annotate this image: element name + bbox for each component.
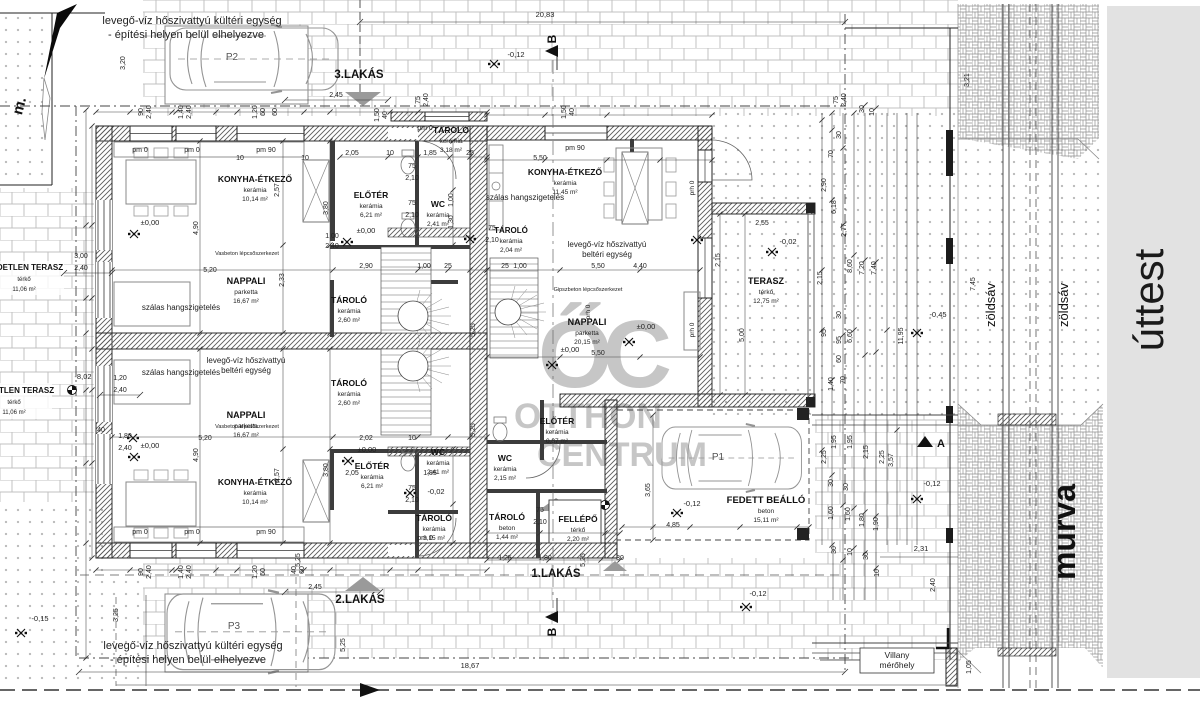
svg-text:±0,00: ±0,00 (561, 345, 580, 354)
svg-text:30: 30 (836, 131, 843, 139)
svg-text:kerámia: kerámia (337, 391, 361, 398)
svg-text:kerámia: kerámia (359, 203, 383, 210)
svg-text:10,14 m²: 10,14 m² (242, 196, 268, 203)
svg-text:4,90: 4,90 (193, 448, 200, 462)
svg-text:prh 0: prh 0 (689, 180, 696, 195)
svg-text:10: 10 (301, 155, 309, 162)
svg-text:Gipszbeton lépcsőszerkezet: Gipszbeton lépcsőszerkezet (554, 287, 623, 293)
svg-text:úttest: úttest (1125, 248, 1172, 351)
svg-text:10: 10 (236, 155, 244, 162)
svg-text:±0,00: ±0,00 (141, 441, 160, 450)
svg-text:pm 0: pm 0 (417, 535, 433, 542)
svg-text:3,80: 3,80 (323, 463, 330, 477)
svg-text:75: 75 (415, 96, 422, 104)
svg-text:11,95: 11,95 (898, 327, 905, 344)
svg-text:75: 75 (536, 507, 544, 514)
svg-text:±0,00: ±0,00 (357, 226, 376, 235)
svg-text:WC: WC (498, 453, 512, 463)
svg-text:2,15: 2,15 (863, 445, 870, 459)
svg-text:TÁROLÓ: TÁROLÓ (489, 511, 525, 522)
svg-text:2,40: 2,40 (186, 565, 193, 579)
svg-text:40: 40 (97, 427, 105, 434)
svg-text:2,45: 2,45 (308, 584, 322, 591)
svg-text:75: 75 (408, 485, 416, 492)
svg-text:75: 75 (408, 200, 416, 207)
svg-text:Villany: Villany (885, 650, 911, 660)
svg-text:levegő-víz hőszivattyú kültéri: levegő-víz hőszivattyú kültéri egység (102, 15, 281, 27)
svg-text:5,25: 5,25 (295, 553, 302, 567)
svg-text:pm 90: pm 90 (256, 529, 276, 536)
svg-text:3,21: 3,21 (964, 73, 971, 87)
svg-text:kerámia: kerámia (243, 187, 267, 194)
svg-text:kerámia: kerámia (499, 238, 523, 245)
svg-text:parketta: parketta (575, 330, 599, 337)
svg-text:40: 40 (569, 108, 576, 116)
svg-text:Vasbeton lépcsőszerkezet: Vasbeton lépcsőszerkezet (215, 251, 279, 257)
svg-text:1,80: 1,80 (859, 513, 866, 527)
svg-text:2,40: 2,40 (113, 387, 127, 394)
svg-text:B: B (545, 627, 559, 636)
svg-text:95: 95 (821, 329, 828, 337)
svg-text:0,87 m²: 0,87 m² (546, 438, 569, 445)
svg-text:30: 30 (843, 483, 850, 491)
svg-text:5,50: 5,50 (533, 155, 547, 162)
svg-text:18,67: 18,67 (461, 661, 480, 670)
svg-text:1,00: 1,00 (325, 233, 339, 240)
svg-text:10: 10 (408, 435, 416, 442)
svg-text:prh 0: prh 0 (689, 322, 696, 337)
svg-text:B: B (545, 34, 559, 43)
svg-text:kerámia: kerámia (493, 466, 517, 473)
svg-text:kerámia: kerámia (360, 474, 384, 481)
svg-text:A: A (937, 438, 945, 450)
svg-text:2,57: 2,57 (274, 183, 281, 197)
svg-text:8,60: 8,60 (847, 259, 854, 273)
svg-text:szálas hangszigetelés: szálas hangszigetelés (142, 303, 220, 312)
svg-text:mérőhely: mérőhely (880, 660, 916, 670)
svg-text:NAPPALI: NAPPALI (227, 276, 266, 286)
svg-text:KONYHA-ÉTKEZŐ: KONYHA-ÉTKEZŐ (528, 166, 603, 177)
svg-text:2,10: 2,10 (485, 237, 499, 244)
svg-text:DETLEN TERASZ: DETLEN TERASZ (0, 386, 54, 395)
svg-text:2,40: 2,40 (146, 565, 153, 579)
svg-text:±0,00: ±0,00 (358, 445, 377, 454)
svg-text:pm 0: pm 0 (184, 529, 200, 536)
svg-text:2,40: 2,40 (841, 93, 848, 107)
svg-text:1,80: 1,80 (538, 555, 552, 562)
svg-text:kerámia: kerámia (243, 490, 267, 497)
svg-text:1,40: 1,40 (178, 565, 185, 579)
svg-text:3,57: 3,57 (888, 453, 895, 467)
svg-text:térkő: térkő (17, 277, 31, 283)
svg-text:-0,12: -0,12 (683, 499, 700, 508)
svg-text:- építési helyen belül elhelye: - építési helyen belül elhelyezve (110, 654, 266, 666)
svg-text:2,41 m²: 2,41 m² (427, 221, 450, 228)
svg-text:2,10: 2,10 (533, 519, 547, 526)
svg-text:2,31: 2,31 (914, 544, 929, 553)
svg-text:ELŐTÉR: ELŐTÉR (540, 415, 574, 426)
svg-text:pm 0: pm 0 (417, 125, 433, 132)
svg-text:2,10: 2,10 (405, 175, 419, 182)
svg-text:70: 70 (828, 150, 835, 158)
svg-text:2,04 m²: 2,04 m² (500, 247, 523, 254)
svg-text:beltéri egység: beltéri egység (582, 250, 632, 259)
svg-text:2,77: 2,77 (841, 223, 848, 237)
svg-text:1,20: 1,20 (252, 565, 259, 579)
svg-text:2,15: 2,15 (817, 271, 824, 285)
svg-text:2,05: 2,05 (345, 150, 359, 157)
svg-text:7,45: 7,45 (970, 277, 977, 291)
svg-text:pm 90: pm 90 (256, 147, 276, 154)
svg-text:2,05: 2,05 (345, 470, 359, 477)
svg-text:2,25: 2,25 (879, 450, 886, 464)
svg-text:3,18 m²: 3,18 m² (440, 147, 463, 154)
svg-text:2,10: 2,10 (405, 212, 419, 219)
svg-text:3,80: 3,80 (323, 201, 330, 215)
svg-text:1,00: 1,00 (513, 263, 527, 270)
svg-text:P1: P1 (712, 452, 725, 463)
svg-text:2,40: 2,40 (118, 445, 132, 452)
svg-text:1,60: 1,60 (828, 506, 835, 520)
svg-text:pm 0: pm 0 (132, 147, 148, 154)
svg-text:-0,12: -0,12 (507, 50, 524, 59)
svg-text:70: 70 (840, 376, 847, 384)
svg-text:2,33: 2,33 (279, 273, 286, 287)
svg-text:2,10: 2,10 (405, 497, 419, 504)
svg-text:szálas hangszigetelés: szálas hangszigetelés (142, 368, 220, 377)
svg-text:2,45: 2,45 (329, 92, 343, 99)
svg-text:16,67 m²: 16,67 m² (233, 298, 259, 305)
svg-text:P2: P2 (226, 52, 239, 63)
svg-text:pm 90: pm 90 (565, 145, 585, 152)
svg-text:25: 25 (444, 263, 452, 270)
svg-text:6,21 m²: 6,21 m² (361, 483, 384, 490)
svg-text:60: 60 (836, 355, 843, 363)
svg-text:beton: beton (499, 525, 516, 532)
svg-text:20,83: 20,83 (536, 10, 555, 19)
svg-text:25: 25 (501, 263, 509, 270)
svg-text:40: 40 (291, 566, 298, 574)
svg-text:1,05: 1,05 (966, 660, 973, 674)
svg-text:térkő: térkő (7, 400, 21, 406)
svg-text:10: 10 (874, 569, 881, 577)
svg-text:5,25: 5,25 (470, 323, 477, 337)
svg-text:1,85: 1,85 (423, 150, 437, 157)
svg-text:2,55: 2,55 (755, 220, 769, 227)
svg-text:4,40: 4,40 (633, 263, 647, 270)
svg-text:1,40: 1,40 (828, 377, 835, 391)
svg-text:kerámia: kerámia (545, 429, 569, 436)
svg-text:±0,00: ±0,00 (637, 322, 656, 331)
svg-text:TÁROLÓ: TÁROLÓ (494, 226, 528, 235)
svg-text:1,25: 1,25 (498, 555, 512, 562)
svg-text:-0,12: -0,12 (923, 479, 940, 488)
svg-text:12,75 m²: 12,75 m² (753, 298, 779, 305)
svg-text:kerámia: kerámia (422, 526, 446, 533)
svg-text:KONYHA-ÉTKEZŐ: KONYHA-ÉTKEZŐ (218, 476, 293, 487)
svg-text:10,14 m²: 10,14 m² (242, 499, 268, 506)
svg-text:7,40: 7,40 (871, 261, 878, 275)
svg-text:30: 30 (863, 552, 870, 560)
svg-text:2,25: 2,25 (821, 450, 828, 464)
svg-text:NAPPALI: NAPPALI (227, 410, 266, 420)
svg-text:90: 90 (138, 568, 145, 576)
svg-text:1,80: 1,80 (118, 433, 132, 440)
svg-text:3,20: 3,20 (120, 56, 127, 70)
svg-text:FELLÉPŐ: FELLÉPŐ (558, 513, 598, 524)
svg-text:75: 75 (408, 163, 416, 170)
svg-text:zöldsáv: zöldsáv (983, 282, 998, 327)
svg-text:WC: WC (431, 199, 445, 209)
svg-text:4,90: 4,90 (193, 221, 200, 235)
svg-text:10: 10 (847, 548, 854, 556)
svg-text:1,20: 1,20 (113, 375, 127, 382)
svg-text:TÁROLÓ: TÁROLÓ (416, 512, 452, 523)
svg-text:1,60: 1,60 (845, 507, 852, 521)
svg-text:WC: WC (431, 447, 445, 457)
svg-text:levegő-víz hőszivattyú: levegő-víz hőszivattyú (207, 356, 286, 365)
svg-text:KONYHA-ÉTKEZŐ: KONYHA-ÉTKEZŐ (218, 173, 293, 184)
svg-text:2,90: 2,90 (821, 178, 828, 192)
svg-text:parketta: parketta (234, 289, 258, 296)
svg-text:2,40: 2,40 (325, 243, 339, 250)
svg-text:1,50: 1,50 (374, 108, 381, 122)
svg-text:- építési helyen belül elhelye: - építési helyen belül elhelyezve (108, 29, 264, 41)
svg-text:6,21 m²: 6,21 m² (360, 212, 383, 219)
svg-text:2,60 m²: 2,60 m² (338, 400, 361, 407)
svg-text:15,11 m²: 15,11 m² (753, 517, 779, 524)
svg-text:ELŐTÉR: ELŐTÉR (354, 189, 388, 200)
svg-text:-0,02: -0,02 (427, 487, 444, 496)
svg-text:3.LAKÁS: 3.LAKÁS (334, 68, 384, 81)
svg-text:-0,12: -0,12 (749, 589, 766, 598)
svg-text:2,15 m²: 2,15 m² (494, 475, 517, 482)
svg-text:95: 95 (836, 336, 843, 344)
svg-text:pm 0: pm 0 (184, 147, 200, 154)
svg-text:5,25: 5,25 (470, 423, 477, 437)
svg-text:2,40: 2,40 (423, 93, 430, 107)
svg-text:1,50: 1,50 (561, 105, 568, 119)
svg-text:16,67 m²: 16,67 m² (233, 432, 259, 439)
svg-text:11,06 m²: 11,06 m² (2, 410, 25, 416)
svg-text:5,50: 5,50 (591, 263, 605, 270)
svg-text:2,40: 2,40 (930, 578, 937, 592)
svg-text:-0,15: -0,15 (31, 614, 48, 623)
svg-text:60: 60 (299, 566, 306, 574)
svg-text:75: 75 (488, 225, 496, 232)
svg-text:1,95: 1,95 (847, 435, 854, 449)
svg-text:60: 60 (260, 568, 267, 576)
svg-text:10: 10 (386, 150, 394, 157)
svg-text:10: 10 (869, 108, 876, 116)
svg-text:térkő: térkő (759, 289, 774, 296)
svg-text:Vasbeton lépcsőszerkezet: Vasbeton lépcsőszerkezet (215, 424, 279, 430)
svg-text:TÁROLÓ: TÁROLÓ (433, 124, 469, 135)
svg-text:beltéri egység: beltéri egység (221, 366, 271, 375)
svg-text:11,06 m²: 11,06 m² (12, 287, 35, 293)
svg-text:levegő-víz hőszivattyú kültéri: levegő-víz hőszivattyú kültéri egység (103, 640, 282, 652)
svg-text:1,85: 1,85 (423, 470, 437, 477)
svg-text:1,95: 1,95 (831, 435, 838, 449)
svg-text:5,20: 5,20 (203, 267, 217, 274)
svg-text:30: 30 (828, 479, 835, 487)
svg-text:4,85: 4,85 (666, 522, 680, 529)
svg-text:zöldsáv: zöldsáv (1056, 282, 1071, 327)
svg-text:30: 30 (616, 555, 624, 562)
svg-text:DETLEN TERASZ: DETLEN TERASZ (0, 263, 63, 272)
svg-text:-0,45: -0,45 (929, 310, 946, 319)
svg-text:TERASZ: TERASZ (748, 276, 785, 286)
svg-text:2,20 m²: 2,20 m² (567, 536, 590, 543)
svg-text:murva: murva (1046, 484, 1082, 580)
svg-text:kerámia: kerámia (553, 180, 577, 187)
svg-text:75: 75 (833, 96, 840, 104)
svg-text:pm 0: pm 0 (132, 529, 148, 536)
svg-text:±0,00: ±0,00 (141, 218, 160, 227)
svg-text:kerámia: kerámia (337, 308, 361, 315)
svg-text:levegő-víz hőszivattyú: levegő-víz hőszivattyú (568, 240, 647, 249)
svg-text:kerámia: kerámia (426, 212, 450, 219)
svg-text:kerámia: kerámia (426, 460, 450, 467)
svg-text:2,57: 2,57 (274, 468, 281, 482)
svg-text:5,25: 5,25 (340, 638, 347, 652)
svg-text:P3: P3 (228, 621, 241, 632)
svg-text:1,90: 1,90 (873, 517, 880, 531)
svg-text:3,25: 3,25 (113, 608, 120, 622)
svg-text:7,20: 7,20 (859, 261, 866, 275)
svg-text:2,02: 2,02 (359, 435, 373, 442)
svg-text:szálas hangszigetelés: szálas hangszigetelés (486, 193, 564, 202)
svg-text:30: 30 (836, 311, 843, 319)
svg-text:-8,02: -8,02 (74, 372, 91, 381)
svg-text:30: 30 (831, 546, 838, 554)
svg-text:TÁROLÓ: TÁROLÓ (331, 377, 367, 388)
svg-text:2,15: 2,15 (715, 253, 722, 267)
svg-text:1,00: 1,00 (448, 193, 455, 207)
svg-text:3,65: 3,65 (645, 483, 652, 497)
svg-text:2,90: 2,90 (359, 263, 373, 270)
svg-text:1.LAKÁS: 1.LAKÁS (531, 567, 581, 580)
svg-text:6,18: 6,18 (831, 200, 838, 214)
svg-text:beton: beton (758, 508, 775, 515)
svg-text:ELŐTÉR: ELŐTÉR (355, 460, 389, 471)
svg-text:2,60 m²: 2,60 m² (338, 317, 361, 324)
svg-text:6,60: 6,60 (847, 329, 854, 343)
svg-text:30: 30 (859, 105, 866, 113)
svg-text:1,30: 1,30 (448, 215, 455, 229)
svg-text:TÁROLÓ: TÁROLÓ (331, 294, 367, 305)
svg-text:5,50: 5,50 (591, 350, 605, 357)
svg-text:1,44 m²: 1,44 m² (496, 534, 519, 541)
svg-text:FEDETT BEÁLLÓ: FEDETT BEÁLLÓ (727, 494, 806, 506)
svg-text:25: 25 (466, 150, 474, 157)
svg-text:prh 0: prh 0 (585, 304, 592, 319)
svg-text:-0,02: -0,02 (779, 237, 796, 246)
svg-text:kerámia: kerámia (439, 138, 463, 145)
